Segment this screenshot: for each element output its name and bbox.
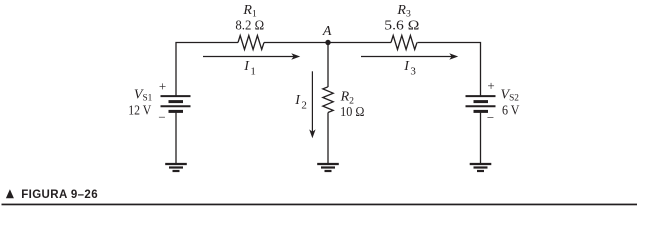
svg-text:I1: I1 [243, 59, 256, 77]
svg-text:5.6 Ω: 5.6 Ω [384, 19, 419, 34]
svg-text:8.2 Ω: 8.2 Ω [235, 19, 264, 34]
current arrow I2 [309, 71, 315, 138]
current arrow I3 [361, 53, 458, 59]
ground (middle) [317, 164, 339, 171]
ground (right) [470, 164, 492, 171]
svg-text:+: + [487, 78, 494, 93]
wire: node A to R3 [328, 42, 391, 44]
svg-text:FIGURA 9–26: FIGURA 9–26 [21, 189, 98, 201]
wire: node A down to R2 [327, 43, 329, 88]
svg-text:VS1: VS1 [134, 87, 153, 103]
svg-text:−: − [158, 110, 165, 125]
svg-text:−: − [487, 110, 494, 125]
wire top rail: VS1 top corner to R1 [176, 43, 238, 97]
svg-text:VS2: VS2 [501, 87, 520, 103]
svg-text:I2: I2 [294, 93, 307, 111]
bottom rule [2, 204, 638, 206]
wire: R2 to middle ground [327, 113, 329, 164]
current arrow I1 [203, 53, 300, 59]
resistor R3 [391, 36, 417, 50]
svg-text:R3: R3 [396, 3, 411, 20]
svg-text:12 V: 12 V [128, 103, 151, 118]
wire top rail: R3 to VS2 top corner [417, 43, 480, 97]
battery VS2 [466, 96, 496, 111]
svg-text:10 Ω: 10 Ω [340, 105, 364, 120]
caption marker triangle [6, 189, 14, 198]
svg-text:R2: R2 [340, 90, 355, 107]
svg-text:A: A [322, 24, 332, 39]
resistor R1 [238, 36, 264, 50]
wire: VS2 to right ground [480, 112, 482, 164]
wire: VS1 to left ground [175, 112, 177, 164]
battery VS1 [161, 96, 191, 111]
svg-text:+: + [159, 79, 166, 94]
svg-text:6 V: 6 V [502, 103, 520, 118]
svg-text:R1: R1 [242, 3, 257, 20]
resistor R2 [323, 87, 333, 113]
svg-text:I3: I3 [403, 59, 416, 77]
wire: R1 to node A [264, 42, 328, 44]
ground (left) [165, 164, 187, 171]
node A (junction dot) [325, 40, 330, 45]
